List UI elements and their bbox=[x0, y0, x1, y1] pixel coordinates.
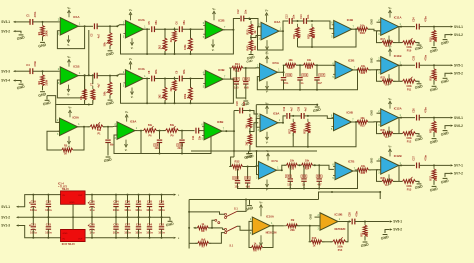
junction bbox=[311, 46, 313, 48]
svg-text:R29: R29 bbox=[307, 34, 310, 39]
wire bbox=[56, 105, 89, 123]
svg-text:470n: 470n bbox=[424, 155, 427, 161]
V- arrow at IC6A bbox=[125, 140, 127, 146]
trimmer P6 50k bbox=[144, 129, 157, 133]
svg-text:R34: R34 bbox=[305, 167, 310, 170]
junction bbox=[181, 130, 183, 132]
wire bbox=[78, 75, 93, 77]
connector pin SV6-2 arrow bbox=[451, 125, 454, 127]
wire bbox=[223, 78, 234, 80]
ground below R11 bbox=[363, 241, 368, 243]
svg-text:20k: 20k bbox=[290, 228, 295, 232]
junction bbox=[433, 26, 435, 28]
wire bbox=[33, 70, 59, 72]
wire bbox=[419, 26, 450, 28]
svg-text:R17: R17 bbox=[381, 38, 386, 41]
op-amp IC4A bbox=[261, 22, 279, 39]
svg-text:GND: GND bbox=[371, 19, 374, 25]
wire bbox=[416, 43, 420, 45]
svg-text:100k: 100k bbox=[44, 30, 48, 36]
wire bbox=[296, 64, 303, 66]
svg-text:C28: C28 bbox=[348, 212, 351, 217]
junction bbox=[88, 104, 90, 106]
wire bbox=[398, 117, 416, 119]
svg-text:C15: C15 bbox=[244, 77, 249, 81]
junction bbox=[232, 29, 234, 31]
resistor R8 1k bbox=[197, 226, 208, 230]
ground at row4 bus bbox=[246, 153, 251, 155]
wire bbox=[279, 21, 289, 31]
ground near IC8A stub bbox=[46, 96, 48, 100]
wire bbox=[149, 195, 151, 203]
svg-text:R37: R37 bbox=[429, 176, 432, 181]
wire bbox=[250, 35, 252, 40]
capacitor C8 bbox=[151, 76, 153, 82]
capacitor C1 bbox=[29, 19, 31, 25]
svg-text:C26: C26 bbox=[413, 108, 416, 113]
svg-text:S.1: S.1 bbox=[229, 245, 233, 248]
wire bbox=[433, 180, 435, 185]
capacitor C22 1n bbox=[301, 178, 306, 180]
wire bbox=[247, 167, 249, 180]
op-amp IC12A bbox=[381, 109, 399, 127]
junction bbox=[92, 74, 94, 76]
capacitor C31 100u bbox=[31, 226, 36, 228]
V+ arrow at IC6A bbox=[126, 116, 128, 121]
svg-text:470n: 470n bbox=[356, 211, 359, 217]
junction bbox=[318, 164, 320, 166]
op-amp IC11B bbox=[381, 57, 399, 75]
V+ arrow at IC12B bbox=[389, 151, 391, 157]
svg-text:100k: 100k bbox=[435, 175, 438, 181]
wire bbox=[146, 29, 148, 54]
op-amp IC9B bbox=[334, 113, 352, 131]
svg-text:R27: R27 bbox=[289, 129, 292, 134]
V- arrow at IC9A bbox=[266, 132, 268, 138]
V+ arrow at IC12A bbox=[389, 103, 391, 109]
resistor R35 10k bbox=[357, 168, 368, 172]
junction bbox=[84, 74, 86, 76]
junction bbox=[282, 30, 284, 32]
svg-text:C12: C12 bbox=[237, 9, 240, 14]
wire bbox=[47, 207, 49, 218]
V+ arrow at IC11B bbox=[389, 51, 391, 57]
wire regulator2 ground pin bbox=[72, 217, 74, 229]
wire bbox=[103, 125, 117, 128]
op-amp IC7A bbox=[259, 161, 277, 179]
connector pin SV6-1 arrow bbox=[451, 117, 454, 119]
wire bbox=[445, 35, 447, 39]
junction bbox=[161, 194, 163, 196]
svg-text:OUT: OUT bbox=[78, 195, 83, 197]
junction bbox=[303, 188, 305, 190]
junction bbox=[161, 216, 163, 218]
svg-text:SV7-2: SV7-2 bbox=[454, 172, 463, 176]
wire bbox=[91, 207, 93, 218]
svg-text:V+: V+ bbox=[388, 145, 392, 149]
svg-text:V+: V+ bbox=[259, 200, 263, 204]
resistor R18 100k bbox=[432, 30, 436, 41]
trimmer P9 50k bbox=[166, 129, 179, 133]
wire bbox=[416, 134, 420, 136]
junction bbox=[299, 64, 301, 66]
capacitor C19 bbox=[286, 113, 288, 119]
wire bbox=[355, 221, 390, 223]
svg-text:10k: 10k bbox=[360, 117, 365, 120]
svg-text:3k3: 3k3 bbox=[170, 38, 173, 43]
wire bbox=[223, 228, 225, 230]
wire bbox=[140, 131, 142, 154]
svg-text:4n7: 4n7 bbox=[317, 184, 322, 187]
svg-text:IC4A: IC4A bbox=[274, 20, 280, 24]
wire bbox=[398, 64, 416, 66]
svg-text:C11: C11 bbox=[192, 135, 195, 140]
power pin -15V arrow bbox=[174, 237, 177, 239]
svg-text:V+: V+ bbox=[129, 57, 133, 61]
connector pin SV5-2 arrow bbox=[451, 72, 454, 74]
junction bbox=[47, 216, 49, 218]
wire bbox=[283, 80, 285, 90]
svg-text:3k6: 3k6 bbox=[245, 124, 248, 129]
V- arrow at IC12A bbox=[388, 127, 390, 133]
junction bbox=[107, 126, 109, 128]
op-amp IC8A bbox=[60, 118, 78, 136]
wire feedback rail bbox=[121, 79, 234, 103]
wire bbox=[292, 20, 304, 22]
junction bbox=[72, 216, 74, 218]
svg-text:SV5-1: SV5-1 bbox=[454, 64, 463, 68]
svg-text:SV3-3: SV3-3 bbox=[1, 69, 10, 73]
wire bbox=[109, 26, 111, 33]
op-amp IC9A bbox=[260, 114, 278, 132]
junction bbox=[256, 150, 258, 152]
wire bbox=[149, 217, 151, 225]
svg-text:2k2: 2k2 bbox=[158, 94, 161, 99]
wire bbox=[127, 207, 129, 218]
capacitor C7 bbox=[93, 73, 95, 79]
svg-text:C16: C16 bbox=[303, 74, 308, 77]
wire bbox=[445, 73, 447, 77]
wire feedback IC11A bbox=[377, 31, 382, 43]
connector pin SV3-1 arrow bbox=[13, 21, 16, 23]
wire bbox=[250, 123, 258, 132]
junction bbox=[379, 191, 381, 193]
trimmer P1 50k bbox=[90, 125, 103, 129]
svg-text:78L15: 78L15 bbox=[62, 188, 70, 191]
wire feedback IC8A bbox=[47, 131, 62, 150]
resistor R28 18k bbox=[306, 122, 310, 133]
resistor R7 6k8 bbox=[198, 241, 209, 245]
V+ arrow at IC11A bbox=[389, 12, 391, 18]
wire bbox=[419, 64, 450, 66]
wire bbox=[433, 80, 435, 85]
svg-text:V+: V+ bbox=[388, 97, 392, 101]
capacitor C17 name frame bbox=[319, 74, 325, 77]
svg-text:10k: 10k bbox=[305, 159, 310, 162]
capacitor C9 bbox=[178, 76, 180, 82]
svg-text:C39: C39 bbox=[31, 200, 37, 204]
connector pin SV1-3 arrow bbox=[16, 224, 19, 226]
capacitor C47a name frame bbox=[285, 175, 291, 178]
svg-text:GND: GND bbox=[310, 214, 313, 220]
svg-text:10k: 10k bbox=[290, 159, 295, 162]
svg-text:P13: P13 bbox=[407, 188, 412, 191]
wire bbox=[78, 25, 93, 27]
V+ arrow at IC9A bbox=[266, 108, 268, 114]
svg-text:R35: R35 bbox=[361, 172, 366, 175]
wire bbox=[107, 127, 109, 139]
resistor R30 1k bbox=[382, 132, 393, 136]
wire bbox=[297, 164, 301, 166]
svg-text:SV3-1: SV3-1 bbox=[1, 20, 10, 24]
resistor R10 1k bbox=[311, 240, 322, 244]
svg-text:IC6A: IC6A bbox=[130, 119, 136, 123]
op-amp IC5A bbox=[260, 63, 278, 80]
capacitor C39 100u bbox=[31, 203, 36, 205]
svg-text:V-: V- bbox=[212, 48, 215, 52]
svg-text:SV3-4: SV3-4 bbox=[1, 79, 10, 83]
wire bbox=[77, 126, 90, 128]
wire bbox=[277, 65, 286, 72]
svg-text:IC2B: IC2B bbox=[218, 18, 224, 22]
junction bbox=[159, 153, 161, 155]
wire bbox=[92, 100, 94, 105]
wire bbox=[338, 221, 352, 223]
junction bbox=[249, 110, 251, 112]
capacitor C2a 68n bbox=[105, 139, 110, 141]
wire bbox=[419, 117, 450, 119]
wire bbox=[32, 195, 34, 203]
svg-text:IC6B: IC6B bbox=[217, 120, 223, 124]
wire bbox=[292, 133, 294, 147]
ground below R24 bbox=[432, 85, 437, 87]
wire bbox=[231, 157, 234, 167]
wire bbox=[84, 75, 86, 89]
resistor R14 10k bbox=[232, 66, 243, 70]
voltage regulator IC14 78L15 bbox=[61, 191, 86, 204]
wire bbox=[199, 130, 205, 132]
resistor R34 10k bbox=[302, 163, 313, 167]
wire bbox=[316, 65, 318, 76]
svg-text:470n: 470n bbox=[424, 16, 427, 22]
junction bbox=[127, 216, 129, 218]
connector pin SV7-2 arrow bbox=[451, 172, 454, 174]
V- arrow at IC2B bbox=[212, 39, 214, 45]
wire bbox=[174, 91, 176, 103]
junction bbox=[233, 130, 235, 132]
wire bbox=[447, 125, 451, 127]
junction bbox=[127, 194, 129, 196]
svg-text:R11: R11 bbox=[360, 232, 363, 237]
ground at row3.5 bus bbox=[315, 106, 320, 108]
svg-text:V+: V+ bbox=[68, 106, 72, 110]
wire bbox=[109, 95, 111, 99]
ground under bus stub bbox=[249, 200, 251, 205]
wire bbox=[42, 37, 44, 41]
V- arrow at IC1B bbox=[68, 85, 70, 91]
op-amp IC2A bbox=[125, 20, 143, 38]
svg-text:= TL072: = TL072 bbox=[58, 186, 68, 189]
wire bbox=[222, 130, 235, 132]
capacitor C28 470n bbox=[351, 219, 353, 225]
svg-text:10k: 10k bbox=[361, 165, 366, 168]
capacitor C27 470n bbox=[416, 163, 418, 169]
V- arrow at IC5A bbox=[266, 81, 268, 87]
wire bbox=[135, 130, 141, 132]
svg-text:V+: V+ bbox=[125, 110, 129, 114]
wire bbox=[127, 229, 129, 237]
svg-text:C30: C30 bbox=[287, 74, 292, 77]
capacitor C46 100n bbox=[125, 203, 130, 205]
op-amp IC12B bbox=[381, 157, 399, 175]
junction bbox=[181, 153, 183, 155]
wire bbox=[379, 192, 381, 199]
ground below C15 bbox=[243, 100, 248, 102]
connector pin SV1-1 arrow bbox=[16, 206, 19, 208]
junction bbox=[433, 117, 435, 119]
capacitor C10 name frame bbox=[177, 144, 183, 147]
wire bbox=[174, 42, 176, 54]
junction bbox=[289, 188, 291, 190]
capacitor C18 bbox=[239, 108, 241, 114]
wire bbox=[182, 78, 204, 80]
svg-text:R31: R31 bbox=[429, 128, 432, 133]
svg-text:C36: C36 bbox=[89, 200, 95, 204]
capacitor C15 name frame bbox=[243, 78, 250, 81]
svg-text:15k: 15k bbox=[313, 34, 316, 39]
resistor R29 15k bbox=[310, 27, 314, 38]
wire bbox=[181, 131, 183, 139]
wire bbox=[164, 51, 166, 54]
wire bbox=[377, 60, 381, 62]
wire bbox=[447, 172, 451, 174]
junction bbox=[297, 20, 299, 22]
svg-text:100k: 100k bbox=[184, 93, 187, 99]
svg-text:10k: 10k bbox=[360, 24, 365, 28]
junction bbox=[248, 18, 250, 20]
svg-text:SV4-1: SV4-1 bbox=[454, 25, 463, 29]
wire bbox=[445, 173, 447, 177]
junction bbox=[138, 237, 140, 239]
wire to ground bbox=[16, 31, 21, 33]
svg-text:R10: R10 bbox=[312, 237, 317, 240]
resistor R33 10k bbox=[286, 163, 297, 167]
wire bbox=[386, 229, 390, 231]
svg-text:6n8: 6n8 bbox=[244, 85, 249, 89]
wire bbox=[164, 29, 166, 39]
ground at mid rail end stub bbox=[169, 217, 171, 220]
svg-text:SV5-2: SV5-2 bbox=[454, 72, 463, 76]
connector pin SV4-2 arrow bbox=[451, 34, 454, 36]
ground at SV3-2 bbox=[19, 34, 24, 36]
svg-text:C31: C31 bbox=[31, 222, 37, 226]
wire bbox=[138, 217, 140, 225]
svg-text:R22: R22 bbox=[361, 72, 366, 75]
svg-text:R13: R13 bbox=[246, 29, 250, 34]
wire feedback rail bbox=[121, 30, 234, 54]
capacitor C47 100n bbox=[125, 226, 130, 228]
V+ arrow at IC1A bbox=[68, 12, 70, 17]
wire bbox=[237, 226, 251, 230]
svg-text:SV3-2: SV3-2 bbox=[1, 29, 10, 33]
svg-text:C14: C14 bbox=[300, 14, 303, 19]
trimmer P11 100k bbox=[403, 79, 416, 83]
wire bbox=[256, 105, 258, 128]
svg-text:10k: 10k bbox=[307, 59, 312, 62]
junction bbox=[316, 64, 318, 66]
svg-text:R18: R18 bbox=[429, 37, 432, 42]
capacitor C17 4n7 bbox=[314, 77, 319, 79]
junction bbox=[245, 67, 247, 69]
wire bbox=[212, 220, 215, 228]
svg-text:IC9B: IC9B bbox=[347, 111, 353, 115]
junction bbox=[115, 216, 117, 218]
wire bbox=[208, 227, 222, 229]
junction bbox=[146, 53, 148, 55]
wire bbox=[313, 165, 334, 169]
V- arrow at IC7A bbox=[266, 180, 268, 186]
wire bbox=[181, 143, 183, 154]
svg-text:15n: 15n bbox=[284, 82, 289, 85]
connector pin SV3-3 arrow bbox=[13, 70, 16, 72]
wire bbox=[109, 76, 111, 83]
ground at SV6-2 bbox=[443, 130, 448, 132]
junction bbox=[116, 75, 118, 77]
wire bbox=[32, 229, 34, 237]
wire bbox=[182, 28, 204, 30]
junction bbox=[146, 28, 148, 30]
svg-text:6n8: 6n8 bbox=[243, 101, 246, 106]
junction bbox=[47, 216, 49, 218]
svg-text:2k7: 2k7 bbox=[245, 141, 248, 146]
trimmer P7 2k2 bbox=[162, 87, 167, 100]
ground below R37 bbox=[432, 185, 437, 187]
svg-text:1n: 1n bbox=[301, 82, 304, 85]
wire bbox=[149, 229, 151, 237]
V+ arrow at IC8A bbox=[69, 112, 71, 118]
svg-text:C29: C29 bbox=[159, 200, 165, 204]
wire feedback IC9A bbox=[256, 118, 283, 146]
wire bbox=[398, 164, 416, 166]
wire bbox=[249, 111, 251, 112]
ground below R1 bbox=[40, 41, 45, 43]
ground below R31 bbox=[432, 138, 437, 140]
capacitor C16 name frame bbox=[302, 74, 308, 77]
svg-text:SV7-1: SV7-1 bbox=[454, 164, 463, 168]
svg-text:100k: 100k bbox=[44, 79, 48, 85]
junction bbox=[232, 78, 234, 80]
wire bbox=[247, 183, 249, 189]
wire input bbox=[16, 21, 31, 23]
wire bbox=[398, 26, 416, 28]
connector pin SV8-1 arrow bbox=[390, 220, 393, 222]
svg-text:C32: C32 bbox=[159, 222, 165, 226]
svg-text:R21: R21 bbox=[307, 67, 312, 70]
wire bbox=[433, 41, 435, 46]
ground at P13 bbox=[417, 183, 422, 185]
svg-text:V-: V- bbox=[266, 141, 269, 145]
svg-text:C4: C4 bbox=[26, 63, 30, 67]
wire bbox=[290, 115, 302, 117]
wire bbox=[32, 207, 34, 218]
svg-text:IC5B: IC5B bbox=[348, 59, 354, 63]
capacitor C13 bbox=[288, 18, 290, 24]
resistor R2 100k bbox=[41, 75, 45, 86]
svg-text:R23: R23 bbox=[381, 77, 386, 80]
svg-text:R1: R1 bbox=[37, 31, 41, 35]
wire bbox=[109, 46, 111, 50]
svg-text:4n7: 4n7 bbox=[318, 82, 323, 85]
